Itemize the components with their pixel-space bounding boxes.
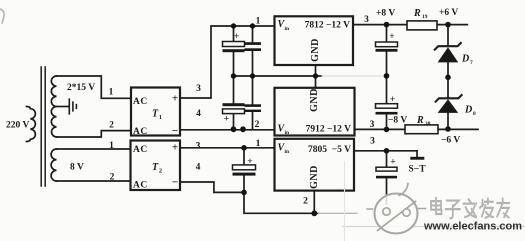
svg-text:+: + [389, 32, 394, 42]
svg-text:+: + [172, 142, 178, 154]
svg-text:R: R [416, 115, 424, 126]
svg-text:−: − [172, 177, 178, 189]
capacitor C3 [233, 76, 235, 129]
svg-text:+: + [224, 115, 229, 125]
svg-text:8 V: 8 V [70, 163, 84, 173]
svg-text:1: 1 [159, 115, 162, 121]
svg-text:220 V: 220 V [6, 121, 29, 131]
wire secondary2 bottom to T2 AC [57, 180, 131, 182]
svg-text:+: + [390, 95, 395, 105]
capacitor C8 [243, 148, 245, 193]
wire GND rail [234, 75, 322, 77]
rectifier T2 [131, 141, 181, 191]
zener D8 [436, 95, 462, 102]
svg-text:+6 V: +6 V [439, 8, 458, 18]
svg-text:2: 2 [159, 169, 162, 175]
wire 7805 output +5V rail [355, 150, 418, 152]
svg-text:3: 3 [364, 15, 369, 25]
svg-text:2: 2 [110, 173, 115, 183]
svg-text:GND: GND [309, 88, 320, 112]
resistor R38 [405, 125, 438, 134]
svg-text:7805 −5 V: 7805 −5 V [308, 145, 351, 155]
capacitor C5 [386, 25, 388, 104]
wire secondary2 top to T2 AC [57, 148, 131, 150]
svg-text:T: T [152, 109, 159, 120]
watermark logo [367, 184, 426, 234]
wire center tap [57, 106, 69, 108]
svg-text:4: 4 [196, 163, 201, 173]
svg-text:+8 V: +8 V [376, 9, 395, 19]
wire ground bus [244, 192, 319, 213]
resistor R19 [407, 21, 437, 30]
svg-text:1: 1 [256, 17, 261, 27]
transformer secondary winding 8V [51, 149, 56, 181]
svg-text:−6 V: −6 V [441, 136, 460, 146]
svg-text:2*15 V: 2*15 V [67, 83, 95, 93]
terminal S-T [416, 151, 418, 157]
capacitor C4 [252, 76, 254, 129]
capacitor C6 [386, 114, 388, 129]
capacitor C7 [386, 151, 388, 167]
svg-text:www.elecfans.com: www.elecfans.com [423, 221, 522, 233]
svg-text:+: + [172, 93, 178, 105]
svg-text:+: + [247, 157, 252, 167]
wire 7812 output +8V rail [353, 24, 467, 26]
svg-text:in: in [285, 149, 290, 155]
svg-text:3: 3 [196, 84, 201, 94]
wire T2 plus to 7805 input [180, 147, 275, 149]
svg-text:19: 19 [422, 14, 428, 20]
scan artifact top-left [0, 9, 4, 23]
svg-text:8: 8 [473, 111, 476, 117]
wire T2 minus jog [180, 182, 244, 192]
svg-text:in: in [285, 130, 290, 136]
svg-text:2: 2 [255, 120, 260, 130]
svg-text:−8 V: −8 V [388, 116, 407, 126]
svg-text:+: + [390, 158, 395, 168]
capacitor C1 [233, 26, 235, 76]
svg-text:AC: AC [133, 127, 148, 137]
scan artifact faint line [343, 226, 525, 228]
rectifier T1 [131, 88, 180, 136]
wire T1 minus to 7912 input rail [180, 129, 275, 131]
svg-text:7: 7 [470, 60, 473, 66]
svg-text:1: 1 [109, 141, 114, 151]
wire GND pins 7812-7912 [315, 65, 317, 88]
transformer core [41, 67, 45, 186]
wire secondary1 top to T1 AC [57, 76, 132, 98]
svg-text:2: 2 [109, 121, 114, 131]
svg-text:4: 4 [196, 109, 201, 119]
svg-text:+: + [234, 32, 239, 42]
wire 7805 GND pin [313, 191, 315, 214]
svg-text:3: 3 [370, 120, 375, 130]
capacitor C2 [252, 26, 254, 76]
svg-text:7812 −12 V: 7812 −12 V [305, 21, 350, 31]
svg-text:GND: GND [310, 38, 321, 62]
watermark text [431, 198, 509, 218]
svg-text:AC: AC [133, 145, 148, 155]
svg-text:1: 1 [256, 139, 261, 149]
wire T1 plus to top rail to 7812 input [180, 26, 275, 98]
regulator U3 7805 [275, 139, 355, 191]
svg-text:D: D [461, 54, 469, 65]
svg-text:1: 1 [109, 88, 114, 98]
svg-text:in: in [285, 26, 290, 32]
ground [69, 99, 76, 114]
svg-text:2: 2 [303, 197, 308, 207]
svg-text:7912 −12 V: 7912 −12 V [306, 125, 351, 135]
svg-text:S−T: S−T [409, 165, 427, 175]
regulator U1 7812 [275, 16, 354, 65]
svg-text:D: D [464, 105, 472, 116]
zener D7 [447, 25, 449, 47]
transformer primary winding [27, 107, 36, 142]
svg-text:R: R [413, 8, 421, 19]
scan artifact faint vertical [344, 162, 346, 241]
svg-text:AC: AC [133, 97, 148, 107]
svg-text:38: 38 [425, 121, 431, 127]
svg-text:AC: AC [133, 181, 148, 191]
transformer secondary winding 2x15V [51, 76, 56, 137]
svg-text:GND: GND [309, 165, 320, 189]
wire secondary1 bottom to T1 AC [57, 131, 132, 137]
svg-text:T: T [152, 162, 159, 173]
svg-text:3: 3 [370, 137, 375, 147]
regulator U2 7912 [275, 88, 355, 136]
svg-text:3: 3 [196, 142, 201, 152]
wire 7912 output -8V rail [355, 128, 479, 130]
svg-text:−: − [172, 125, 178, 137]
